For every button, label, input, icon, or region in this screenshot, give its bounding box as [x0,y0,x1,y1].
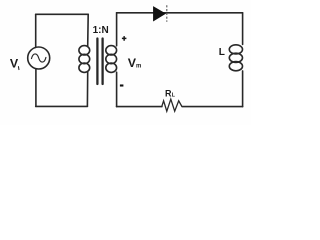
wire: left edge above source [35,14,37,47]
svg-text:1:N: 1:N [93,25,109,36]
svg-text:L: L [219,47,225,58]
inductor L coil [229,45,242,54]
wire: left loop top [36,13,88,15]
wire: secondary top lead [116,13,118,46]
diode D1 [153,7,165,21]
wire: right edge of left loop (to primary) [87,14,90,46]
label + (secondary polarity) [122,36,127,41]
wire: primary bottom lead [86,72,88,106]
wire: left edge below source [35,69,37,107]
AC source VS circle [28,47,50,69]
transformer secondary coil [106,46,117,55]
resistor RL zigzag [162,99,182,111]
wire: secondary bottom lead [116,72,118,106]
diode cathode bar [166,5,168,22]
transformer core bar 1 [96,39,98,85]
transformer primary coil [79,46,90,55]
wire: right loop right edge above L [242,13,244,45]
wire: right edge below L [242,71,244,107]
wire: right loop top [117,12,243,14]
wire: left loop bottom [36,105,88,107]
wire: right loop bottom right [182,106,242,108]
svg-text:m: m [136,63,141,69]
svg-text:V: V [10,56,19,70]
transformer core bar 2 [101,39,103,85]
wire: right loop bottom left [117,106,162,108]
label VS subscript tick [17,66,20,70]
AC source sine wave [32,54,46,62]
label - (secondary polarity) [120,84,124,86]
